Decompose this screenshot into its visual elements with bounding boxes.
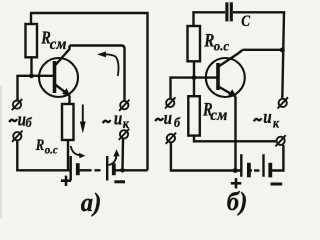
label minus a <box>114 180 125 183</box>
terminal ub bottom (b) <box>166 133 176 144</box>
wire battery dash a <box>95 169 101 171</box>
label uk (b) <box>254 107 280 131</box>
label ub (b) <box>155 107 180 130</box>
transistor VT2 circle <box>206 58 245 97</box>
label Rcm (b) <box>202 99 228 124</box>
wire battery right a <box>114 169 148 171</box>
wire bottom left b <box>171 143 241 171</box>
wire battery right b <box>270 145 283 171</box>
svg-text:u: u <box>164 107 172 128</box>
node battery junction a <box>120 168 125 173</box>
terminal uk bottom (a) <box>119 129 129 140</box>
label Roc (a) <box>35 137 58 157</box>
transistor VT2 collector <box>219 50 243 67</box>
wire collector loop a <box>70 46 125 101</box>
svg-text:б: б <box>26 116 33 131</box>
wire top rail a <box>30 13 148 170</box>
battery a cell1 minus plate <box>76 163 80 175</box>
svg-text:u: u <box>114 108 122 129</box>
battery b cell1 minus plate <box>247 163 251 178</box>
capacitor C plate1 <box>225 2 228 21</box>
terminal uk bottom (b) <box>275 135 285 146</box>
svg-text:R: R <box>35 137 45 155</box>
svg-text:о.с: о.с <box>45 144 58 157</box>
battery b cell2 plus plate <box>262 154 264 177</box>
resistor Rcm (b) <box>188 96 200 135</box>
wire battery middle b <box>249 169 252 171</box>
terminal ub top (b) <box>165 97 175 108</box>
wire Rcm bottom lead <box>30 57 32 76</box>
wire Rcm top lead b <box>193 78 195 97</box>
label plus a <box>61 176 71 186</box>
terminal uk top (a) <box>119 100 129 111</box>
svg-text:а): а) <box>81 188 102 217</box>
wire Rcm bottom to uk terminal b <box>194 136 277 142</box>
wire battery middle a <box>78 169 92 171</box>
label Roc (b) <box>203 30 229 54</box>
wire Roc bottom lead a <box>67 140 69 170</box>
arrow into battery a <box>71 146 80 155</box>
transistor VT1 base bar <box>53 61 57 93</box>
wire collector b <box>243 49 283 51</box>
transistor VT2 base bar <box>216 63 220 90</box>
battery a cell1 plus plate <box>69 156 71 181</box>
resistor Roc (b) <box>188 26 201 61</box>
battery b cell1 plus plate <box>240 154 242 177</box>
svg-text:б: б <box>174 116 181 131</box>
node base junction a <box>29 73 34 78</box>
node base junction b <box>192 75 197 80</box>
wire Rcm top lead <box>30 13 32 24</box>
terminal uk top (b) <box>278 97 288 108</box>
arrow collector current a <box>104 54 119 76</box>
svg-text:к: к <box>273 116 280 131</box>
wire bottom left a <box>17 141 70 171</box>
label minus b <box>271 183 283 186</box>
terminal ub bottom (a) <box>12 131 22 142</box>
wire base a <box>18 76 54 101</box>
label ub (a) <box>9 109 32 131</box>
arrow battery current a <box>109 153 117 165</box>
svg-text:к: к <box>123 117 130 132</box>
wire emitter lead b <box>234 97 236 171</box>
wire uk bottom to battery a <box>121 139 124 171</box>
capacitor C plate2 <box>230 2 233 21</box>
terminal ub top (a) <box>12 99 22 110</box>
wire Roc bottom lead b <box>193 61 195 77</box>
wire base b <box>171 78 217 99</box>
transistor VT1 collector <box>55 46 70 66</box>
battery a cell2 minus plate <box>112 163 116 175</box>
transistor VT1 circle <box>39 58 78 97</box>
resistor Rcm (a) <box>26 24 38 57</box>
label uk (a) <box>103 108 130 131</box>
transistor VT1 emitter <box>55 85 70 96</box>
battery a cell2 plus plate <box>106 156 108 181</box>
node collector junction b <box>280 48 285 53</box>
wire emitter lead a <box>68 96 70 104</box>
wire top rail b right <box>233 12 284 98</box>
transistor VT2 emitter <box>219 87 237 97</box>
node battery junction b <box>233 168 238 173</box>
battery b cell2 minus plate <box>268 163 272 178</box>
resistor Roc (a) <box>62 104 74 140</box>
svg-text:см: см <box>210 106 227 123</box>
wire top rail b left <box>194 12 226 26</box>
svg-text:R: R <box>203 30 214 51</box>
svg-text:см: см <box>50 36 67 52</box>
label plus b <box>231 178 242 188</box>
svg-text:б): б) <box>227 188 248 217</box>
arrow emitter current a <box>82 105 84 124</box>
wire battery dash b <box>254 169 260 171</box>
svg-text:о.с: о.с <box>214 38 229 53</box>
label Rcm (a) <box>40 29 66 52</box>
scan artifact left edge <box>0 86 2 218</box>
svg-text:С: С <box>241 13 250 30</box>
svg-text:u: u <box>263 107 271 128</box>
